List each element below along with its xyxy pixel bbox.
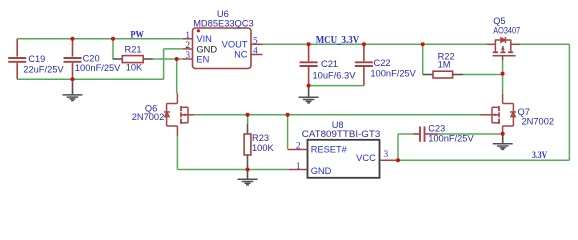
wire C23 branch up <box>397 134 399 160</box>
wire Q6 source down <box>176 136 178 170</box>
capacitor C19 <box>8 39 26 80</box>
svg-text:4: 4 <box>253 46 258 56</box>
junction R23 top <box>246 113 250 117</box>
wire 3.3V rail to U8 VCC <box>398 159 569 161</box>
svg-text:3.3V: 3.3V <box>532 150 547 161</box>
svg-text:GND: GND <box>196 44 217 54</box>
U6 pin numbers <box>185 31 258 61</box>
svg-text:PW: PW <box>130 30 144 41</box>
junction C20 bottom <box>71 77 75 81</box>
svg-text:1: 1 <box>185 31 190 41</box>
resistor R23 <box>244 124 251 170</box>
junction Q5 gate <box>501 72 505 76</box>
svg-text:R23: R23 <box>252 133 269 143</box>
junction R21 top <box>111 37 115 41</box>
svg-text:RESET#: RESET# <box>311 144 348 154</box>
junction C21 bottom <box>307 84 311 88</box>
transistor Q5 AO3407 <box>487 37 520 61</box>
ground (C20) <box>63 79 83 100</box>
U8 pin names <box>311 144 376 176</box>
transistor Q6 2N7002 <box>164 94 194 137</box>
ground (Q7 source) <box>493 134 513 150</box>
wire MCU_3.3V rail right of Q5 <box>520 43 569 45</box>
svg-text:NC: NC <box>234 50 248 60</box>
capacitor C23 <box>413 127 438 142</box>
svg-text:2: 2 <box>296 141 301 151</box>
wire EN junction down to Q6 drain <box>176 59 178 94</box>
svg-text:R21: R21 <box>125 45 142 55</box>
wire C21 C22 bottom <box>309 85 364 87</box>
IC U6 MD85E33QC3 <box>183 28 263 69</box>
junction C20 top <box>71 37 75 41</box>
svg-text:100nF/25V: 100nF/25V <box>75 63 121 73</box>
svg-text:2N7002: 2N7002 <box>522 117 555 127</box>
svg-text:3: 3 <box>185 51 190 61</box>
wire R22 right to Q5 gate <box>463 74 502 76</box>
svg-text:GND: GND <box>311 166 332 176</box>
wire R23 top drop <box>247 115 249 124</box>
junction R22 top <box>421 42 425 46</box>
svg-text:1: 1 <box>296 162 301 172</box>
svg-text:Q5: Q5 <box>493 16 505 26</box>
wire MCU_3.3V rail <box>263 43 488 45</box>
ground (R23) <box>238 170 258 185</box>
wire C23 to Q7 source junction <box>438 133 502 135</box>
svg-text:10uF/6.3V: 10uF/6.3V <box>313 70 357 80</box>
U6 pin names <box>196 34 247 64</box>
IC U8 CAT809TTBI-GT3 <box>288 140 398 178</box>
junction U8 VCC node <box>396 158 400 162</box>
svg-text:VIN: VIN <box>196 34 212 44</box>
junction Q7 source node <box>501 132 505 136</box>
svg-text:C19: C19 <box>28 54 45 64</box>
capacitor C22 <box>355 44 373 85</box>
svg-text:5: 5 <box>253 36 258 46</box>
svg-text:100nF/25V: 100nF/25V <box>428 133 474 143</box>
wire R22 drop from rail <box>422 44 424 74</box>
wire U6 GND down <box>163 49 165 79</box>
wire Q5 gate down to Q7 drain <box>502 61 504 94</box>
svg-text:2: 2 <box>185 41 190 51</box>
svg-text:100nF/25V: 100nF/25V <box>370 69 416 79</box>
svg-text:VOUT: VOUT <box>222 40 248 50</box>
wire R21 right to U6 EN <box>153 58 183 60</box>
svg-text:MD85E33QC3: MD85E33QC3 <box>193 19 253 29</box>
resistor R22 <box>423 71 464 78</box>
svg-text:3: 3 <box>384 150 389 160</box>
svg-text:AO3407: AO3407 <box>493 26 520 36</box>
wire right edge down <box>568 44 570 160</box>
junction R23 bottom <box>246 168 250 172</box>
wire U8 RESET drop <box>287 115 289 150</box>
svg-text:22uF/25V: 22uF/25V <box>23 64 64 74</box>
svg-text:VCC: VCC <box>356 153 376 163</box>
wire bottom rail to U8 GND <box>177 169 288 171</box>
wire R21 drop from PW rail <box>112 39 114 59</box>
svg-text:CAT809TTBI-GT3: CAT809TTBI-GT3 <box>302 129 381 139</box>
capacitor C21 <box>300 44 318 85</box>
wire C23 branch right <box>398 133 413 135</box>
svg-text:100K: 100K <box>252 143 275 153</box>
svg-text:1M: 1M <box>438 59 451 69</box>
svg-text:10K: 10K <box>126 63 143 73</box>
wire PW top rail <box>17 38 183 40</box>
wire ground rail bottom left <box>17 78 163 80</box>
wire U6 GND pin left <box>164 48 183 50</box>
svg-text:Q7: Q7 <box>518 107 530 117</box>
transistor Q7 2N7002 <box>480 94 516 134</box>
junction EN node <box>175 57 179 61</box>
resistor R21 <box>113 56 153 63</box>
svg-text:C23: C23 <box>428 123 445 133</box>
junction C22 top <box>362 42 366 46</box>
svg-text:2N7002: 2N7002 <box>132 112 165 122</box>
wire Q6 output long rail <box>194 114 480 116</box>
capacitor C20 <box>64 39 82 80</box>
junction U8 RESET drop <box>286 113 290 117</box>
svg-text:C21: C21 <box>321 59 338 69</box>
svg-text:MCU_3.3V: MCU_3.3V <box>316 35 360 46</box>
svg-text:EN: EN <box>196 54 209 64</box>
U8 pin numbers <box>296 141 389 172</box>
svg-text:C22: C22 <box>374 58 391 68</box>
junction C21 top <box>307 42 311 46</box>
ground (C21) <box>299 86 319 103</box>
